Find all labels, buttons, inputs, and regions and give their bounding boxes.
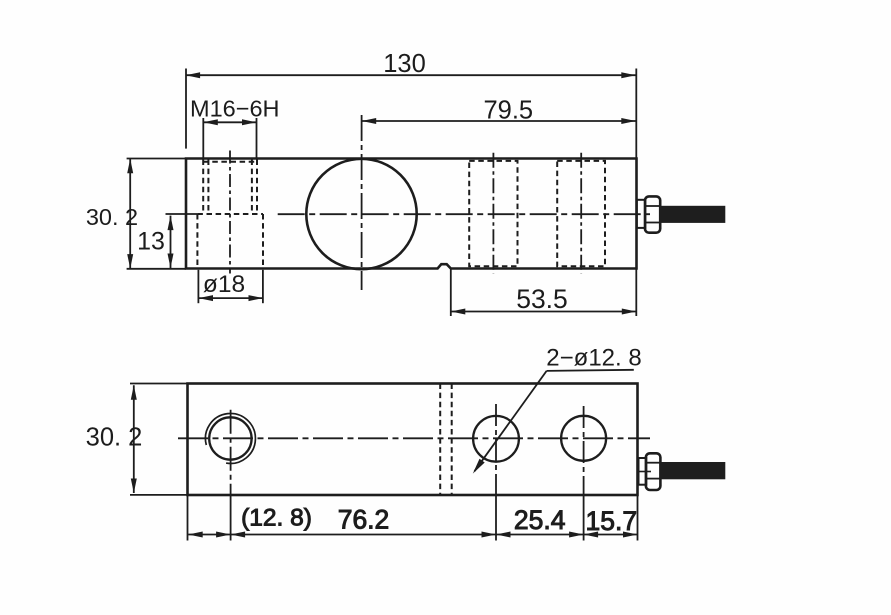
svg-text:ø18: ø18 bbox=[203, 271, 245, 298]
svg-text:30. 2: 30. 2 bbox=[86, 204, 138, 230]
load button bore circle bbox=[306, 159, 416, 269]
strain pocket 2 (hidden lines) bbox=[557, 161, 605, 266]
svg-text:79.5: 79.5 bbox=[483, 97, 533, 125]
dimension 130 bbox=[186, 50, 637, 158]
cable gland flange (bottom view) bbox=[639, 458, 647, 485]
dimension (12.8) bbox=[188, 505, 312, 538]
gap groove hidden lines bbox=[440, 384, 452, 496]
threaded mounting hole (bottom view) bbox=[205, 413, 255, 463]
pocket 1 centerline bbox=[492, 153, 494, 274]
dimension 30.2 (bottom view) bbox=[86, 384, 188, 495]
svg-text:130: 130 bbox=[383, 50, 426, 78]
strain pocket 1 (hidden lines) bbox=[469, 161, 517, 266]
dimension 76.2 bbox=[231, 505, 496, 538]
cable (top view) bbox=[660, 206, 725, 223]
bottom dimension chain line with extensions bbox=[188, 495, 638, 541]
leader callout 2-ø12.8 bbox=[473, 345, 642, 474]
svg-text:13: 13 bbox=[137, 228, 165, 256]
svg-text:53.5: 53.5 bbox=[516, 284, 568, 314]
svg-text:76.2: 76.2 bbox=[338, 505, 390, 535]
svg-text:2−ø12. 8: 2−ø12. 8 bbox=[546, 345, 641, 372]
mounting hole 1 ø12.8 bbox=[473, 416, 519, 462]
dimension 79.5 bbox=[362, 97, 636, 125]
hole 1 vertical centerline / extension bbox=[495, 404, 497, 541]
pocket 2 centerline bbox=[580, 153, 582, 274]
M16 threaded hole (hidden lines) bbox=[197, 160, 263, 268]
dimension 13 bbox=[137, 214, 197, 268]
bore vertical centerline bbox=[361, 115, 363, 290]
svg-text:30. 2: 30. 2 bbox=[86, 424, 143, 452]
bottom view body outline bbox=[188, 384, 638, 496]
top view horizontal centerline bbox=[278, 213, 650, 215]
hole 2 vertical centerline / extension bbox=[583, 406, 585, 541]
svg-text:15.7: 15.7 bbox=[586, 506, 638, 536]
mounting hole 2 ø12.8 bbox=[561, 416, 606, 461]
cable gland nut (bottom view) bbox=[646, 453, 661, 490]
cable (bottom view) bbox=[637, 462, 725, 479]
threaded hole vertical centerline / extension bbox=[230, 410, 232, 541]
M16 hole centerline bbox=[229, 151, 231, 274]
cable gland flange (top view) bbox=[637, 200, 646, 228]
top view body outline with bottom notch bbox=[186, 159, 637, 269]
dimension 30.2 (top view) bbox=[86, 159, 186, 269]
dimension ø18 bbox=[198, 270, 263, 303]
svg-text:(12. 8): (12. 8) bbox=[241, 505, 312, 532]
svg-text:25.4: 25.4 bbox=[514, 505, 566, 535]
dimension 15.7 bbox=[584, 506, 638, 538]
dimension 53.5 bbox=[451, 270, 637, 317]
dimension M16-6H bbox=[190, 96, 279, 159]
svg-text:M16−6H: M16−6H bbox=[190, 96, 279, 122]
bottom view horizontal centerline bbox=[178, 437, 650, 439]
dimension 25.4 bbox=[496, 505, 584, 538]
cable gland nut (top view) bbox=[645, 196, 660, 232]
